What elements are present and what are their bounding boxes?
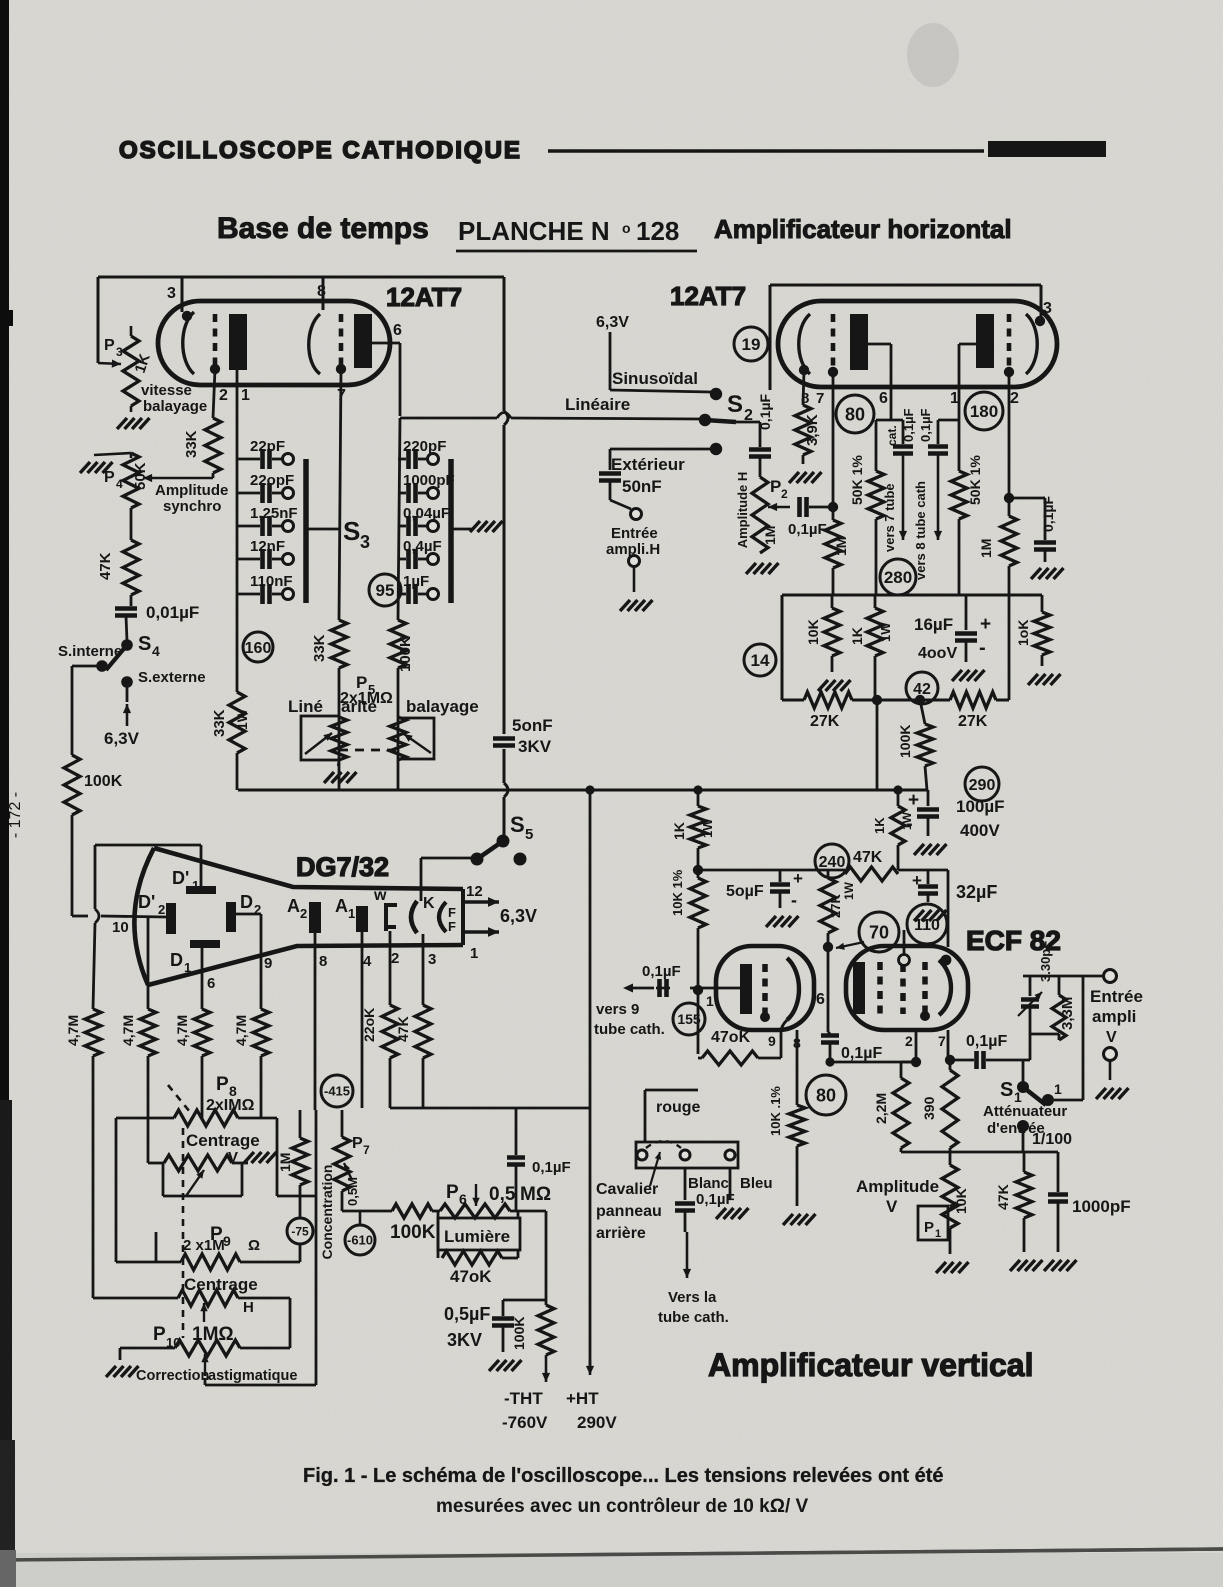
svg-text:Bleu: Bleu bbox=[740, 1175, 773, 1192]
svg-text:Amplificateur horizontal: Amplificateur horizontal bbox=[714, 214, 1012, 244]
svg-text:5oµF: 5oµF bbox=[726, 883, 764, 900]
svg-text:P: P bbox=[216, 1074, 229, 1095]
svg-text:12AT7: 12AT7 bbox=[670, 281, 746, 311]
svg-text:33K: 33K bbox=[211, 709, 228, 737]
svg-text:6: 6 bbox=[207, 975, 215, 992]
svg-text:1W: 1W bbox=[900, 811, 914, 830]
svg-text:1,25nF: 1,25nF bbox=[250, 505, 298, 522]
svg-text:7: 7 bbox=[363, 1143, 370, 1157]
svg-text:2: 2 bbox=[219, 387, 228, 404]
svg-text:10: 10 bbox=[112, 919, 129, 936]
svg-text:95: 95 bbox=[376, 581, 395, 600]
svg-text:155: 155 bbox=[677, 1011, 701, 1027]
svg-text:2: 2 bbox=[158, 902, 165, 917]
svg-text:tube cath.: tube cath. bbox=[594, 1021, 665, 1038]
svg-text:22pF: 22pF bbox=[250, 438, 285, 455]
svg-text:-: - bbox=[791, 890, 797, 910]
svg-text:MΩ: MΩ bbox=[520, 1184, 551, 1205]
svg-text:P: P bbox=[104, 469, 115, 486]
svg-text:50nF: 50nF bbox=[622, 477, 662, 496]
svg-text:vers 9: vers 9 bbox=[596, 1001, 639, 1018]
svg-text:47K: 47K bbox=[395, 1016, 411, 1042]
svg-text:14: 14 bbox=[751, 651, 770, 670]
svg-text:240: 240 bbox=[819, 854, 846, 871]
svg-text:1W: 1W bbox=[700, 818, 715, 838]
svg-text:Entrée: Entrée bbox=[611, 525, 658, 542]
svg-text:1000pF: 1000pF bbox=[1072, 1197, 1131, 1216]
svg-text:P: P bbox=[924, 1219, 934, 1236]
svg-text:4,7M: 4,7M bbox=[174, 1015, 190, 1046]
svg-text:4ooV: 4ooV bbox=[918, 645, 957, 662]
svg-text:Fig. 1 - Le schéma de l'oscill: Fig. 1 - Le schéma de l'oscilloscope... … bbox=[303, 1465, 944, 1487]
svg-text:-: - bbox=[979, 637, 986, 659]
svg-text:S.externe: S.externe bbox=[138, 669, 206, 686]
svg-text:arrière: arrière bbox=[596, 1225, 646, 1242]
svg-text:3,3M: 3,3M bbox=[1059, 997, 1076, 1030]
svg-text:arité: arité bbox=[341, 697, 377, 716]
svg-text:10K .1%: 10K .1% bbox=[768, 1086, 783, 1136]
svg-text:-THT: -THT bbox=[504, 1389, 543, 1408]
svg-text:-415: -415 bbox=[324, 1084, 350, 1099]
svg-text:1K: 1K bbox=[872, 817, 887, 834]
svg-text:vers 8 tube cath: vers 8 tube cath bbox=[913, 481, 928, 580]
svg-text:tube cath.: tube cath. bbox=[658, 1309, 729, 1326]
svg-text:400V: 400V bbox=[960, 821, 1000, 840]
svg-text:290: 290 bbox=[969, 777, 996, 794]
svg-text:50K 1%: 50K 1% bbox=[967, 455, 983, 505]
svg-text:balayage: balayage bbox=[143, 398, 207, 415]
svg-text:Ω: Ω bbox=[248, 1237, 260, 1254]
svg-text:Atténuateur: Atténuateur bbox=[983, 1103, 1067, 1120]
svg-text:6,3V: 6,3V bbox=[596, 314, 629, 331]
svg-text:1M: 1M bbox=[762, 526, 778, 545]
svg-text:D: D bbox=[240, 892, 253, 912]
svg-text:4: 4 bbox=[152, 643, 160, 659]
svg-text:100K: 100K bbox=[897, 725, 913, 758]
svg-text:-760V: -760V bbox=[502, 1413, 548, 1432]
svg-text:Cavalier: Cavalier bbox=[596, 1181, 658, 1198]
svg-text:4: 4 bbox=[116, 477, 123, 491]
svg-text:33K: 33K bbox=[183, 430, 200, 458]
svg-text:3: 3 bbox=[116, 345, 123, 359]
svg-text:50K 1%: 50K 1% bbox=[849, 455, 865, 505]
svg-text:S: S bbox=[138, 633, 151, 655]
svg-text:22oK: 22oK bbox=[361, 1008, 377, 1042]
svg-text:80: 80 bbox=[845, 404, 865, 424]
svg-text:128: 128 bbox=[636, 216, 679, 246]
svg-text:0,1µF: 0,1µF bbox=[1040, 495, 1056, 532]
svg-text:1M: 1M bbox=[277, 1153, 293, 1172]
svg-text:D': D' bbox=[138, 892, 155, 912]
svg-text:panneau: panneau bbox=[596, 1203, 662, 1220]
svg-text:110nF: 110nF bbox=[250, 573, 293, 590]
svg-text:12: 12 bbox=[466, 883, 483, 900]
svg-text:1/100: 1/100 bbox=[1032, 1131, 1072, 1148]
svg-text:F: F bbox=[448, 919, 456, 934]
svg-text:D: D bbox=[170, 950, 183, 970]
svg-text:P: P bbox=[352, 1135, 363, 1152]
svg-text:P: P bbox=[104, 337, 115, 354]
svg-text:47K: 47K bbox=[995, 1184, 1011, 1210]
svg-text:1: 1 bbox=[184, 960, 191, 975]
svg-text:5: 5 bbox=[525, 826, 533, 843]
svg-text:1W: 1W bbox=[842, 881, 856, 900]
svg-text:Amplitude H: Amplitude H bbox=[735, 472, 750, 549]
svg-text:0,1µF: 0,1µF bbox=[788, 521, 827, 538]
svg-text:0,5µF: 0,5µF bbox=[444, 1304, 490, 1324]
svg-text:9: 9 bbox=[768, 1033, 776, 1049]
svg-text:ampli: ampli bbox=[1092, 1007, 1136, 1026]
svg-text:Base de temps: Base de temps bbox=[217, 212, 429, 245]
svg-text:1000pF: 1000pF bbox=[403, 472, 455, 489]
svg-text:-610: -610 bbox=[347, 1233, 373, 1248]
svg-text:Centrage: Centrage bbox=[186, 1131, 260, 1150]
svg-text:9: 9 bbox=[264, 955, 272, 972]
svg-text:160: 160 bbox=[245, 640, 272, 657]
svg-text:0,01µF: 0,01µF bbox=[146, 603, 199, 622]
svg-text:cat.: cat. bbox=[885, 425, 899, 446]
svg-text:2: 2 bbox=[391, 950, 399, 967]
svg-text:2,2M: 2,2M bbox=[873, 1093, 889, 1124]
svg-text:0,1µF: 0,1µF bbox=[901, 408, 916, 442]
svg-text:27K: 27K bbox=[958, 713, 988, 730]
svg-text:3KV: 3KV bbox=[447, 1330, 482, 1350]
svg-text:0,5: 0,5 bbox=[489, 1184, 516, 1205]
svg-text:0,1µF: 0,1µF bbox=[966, 1033, 1007, 1050]
svg-text:6,3V: 6,3V bbox=[104, 729, 140, 748]
svg-text:32µF: 32µF bbox=[956, 882, 997, 902]
svg-text:220pF: 220pF bbox=[403, 438, 446, 455]
svg-text:1: 1 bbox=[1054, 1081, 1062, 1097]
svg-text:2: 2 bbox=[781, 487, 788, 501]
svg-text:+: + bbox=[908, 790, 919, 811]
svg-text:3: 3 bbox=[167, 285, 176, 302]
svg-text:1: 1 bbox=[935, 1228, 941, 1240]
svg-text:1W: 1W bbox=[878, 622, 893, 642]
svg-text:19: 19 bbox=[742, 335, 761, 354]
svg-text:Amplitude: Amplitude bbox=[155, 482, 228, 499]
svg-text:1K: 1K bbox=[849, 627, 865, 645]
svg-text:16µF: 16µF bbox=[914, 615, 953, 634]
svg-text:6: 6 bbox=[459, 1191, 467, 1207]
svg-text:7: 7 bbox=[938, 1033, 946, 1049]
svg-text:0,4µF: 0,4µF bbox=[403, 538, 442, 555]
svg-text:o: o bbox=[622, 220, 631, 236]
svg-text:3: 3 bbox=[1043, 300, 1052, 317]
svg-text:+HT: +HT bbox=[566, 1389, 599, 1408]
svg-text:290V: 290V bbox=[577, 1413, 617, 1432]
svg-text:1: 1 bbox=[241, 387, 250, 404]
svg-text:Extérieur: Extérieur bbox=[611, 455, 685, 474]
svg-text:6: 6 bbox=[393, 322, 402, 339]
svg-text:1W: 1W bbox=[234, 708, 250, 730]
svg-text:A: A bbox=[335, 896, 348, 916]
svg-text:6: 6 bbox=[879, 390, 888, 407]
svg-text:100K: 100K bbox=[84, 773, 123, 790]
svg-text:10K 1%: 10K 1% bbox=[670, 869, 685, 916]
svg-text:S: S bbox=[343, 516, 360, 546]
svg-text:S: S bbox=[727, 391, 743, 418]
svg-text:100K: 100K bbox=[390, 1222, 436, 1243]
svg-text:80: 80 bbox=[816, 1085, 836, 1105]
svg-text:100K: 100K bbox=[511, 1317, 527, 1350]
svg-text:w: w bbox=[373, 887, 387, 904]
svg-text:rouge: rouge bbox=[656, 1099, 701, 1116]
svg-text:OSCILLOSCOPE CATHODIQUE: OSCILLOSCOPE CATHODIQUE bbox=[119, 137, 522, 164]
svg-text:1µF: 1µF bbox=[403, 573, 429, 590]
svg-text:12AT7: 12AT7 bbox=[386, 282, 462, 312]
svg-text:Blanc: Blanc bbox=[688, 1175, 729, 1192]
svg-text:astigmatique: astigmatique bbox=[208, 1368, 297, 1384]
svg-text:47K: 47K bbox=[97, 552, 114, 580]
svg-text:0,1µF: 0,1µF bbox=[841, 1045, 882, 1062]
svg-text:2: 2 bbox=[905, 1033, 913, 1049]
svg-text:Entrée: Entrée bbox=[1090, 987, 1143, 1006]
svg-text:10K: 10K bbox=[953, 1188, 969, 1214]
svg-text:50K: 50K bbox=[132, 462, 149, 490]
svg-text:balayage: balayage bbox=[406, 697, 479, 716]
svg-text:3: 3 bbox=[428, 951, 436, 968]
svg-text:V: V bbox=[1106, 1029, 1117, 1046]
svg-text:6,3V: 6,3V bbox=[500, 906, 537, 926]
svg-text:S: S bbox=[1000, 1079, 1013, 1101]
svg-text:A: A bbox=[287, 896, 300, 916]
svg-text:8: 8 bbox=[317, 283, 326, 300]
svg-text:0,1µF: 0,1µF bbox=[918, 408, 933, 442]
svg-text:100K: 100K bbox=[397, 636, 414, 672]
svg-text:33K: 33K bbox=[311, 634, 328, 662]
svg-text:Vers la: Vers la bbox=[668, 1289, 717, 1306]
svg-text:Sinusoïdal: Sinusoïdal bbox=[612, 369, 698, 388]
svg-text:1: 1 bbox=[706, 993, 714, 1009]
svg-text:0,5M: 0,5M bbox=[345, 1177, 360, 1206]
svg-text:8: 8 bbox=[319, 953, 327, 970]
svg-text:27K: 27K bbox=[828, 894, 843, 918]
svg-text:H: H bbox=[243, 1299, 254, 1316]
svg-text:Lumière: Lumière bbox=[444, 1227, 510, 1246]
svg-text:22opF: 22opF bbox=[250, 472, 294, 489]
svg-text:180: 180 bbox=[970, 402, 998, 421]
svg-text:0,1µF: 0,1µF bbox=[532, 1159, 571, 1176]
svg-text:vers 7 tube: vers 7 tube bbox=[882, 483, 897, 552]
svg-text:27K: 27K bbox=[810, 713, 840, 730]
svg-text:S: S bbox=[510, 812, 525, 837]
svg-text:1: 1 bbox=[470, 945, 478, 962]
svg-text:7: 7 bbox=[816, 390, 824, 407]
svg-text:4,7M: 4,7M bbox=[120, 1015, 136, 1046]
svg-text:2: 2 bbox=[1010, 390, 1019, 407]
svg-text:12nF: 12nF bbox=[250, 538, 285, 555]
svg-text:1K: 1K bbox=[671, 822, 687, 840]
svg-text:8: 8 bbox=[793, 1035, 801, 1051]
svg-text:P: P bbox=[153, 1324, 166, 1345]
svg-text:0,1µF: 0,1µF bbox=[757, 393, 773, 430]
svg-text:0,04µF: 0,04µF bbox=[403, 505, 450, 522]
svg-text:DG7/32: DG7/32 bbox=[296, 852, 389, 882]
svg-text:K: K bbox=[423, 895, 435, 912]
svg-text:V: V bbox=[886, 1197, 898, 1216]
svg-text:Liné: Liné bbox=[288, 697, 323, 716]
svg-text:42: 42 bbox=[913, 681, 931, 698]
svg-text:+: + bbox=[793, 869, 803, 888]
svg-text:P: P bbox=[446, 1182, 459, 1203]
svg-text:0,1µF: 0,1µF bbox=[642, 963, 681, 980]
svg-text:10K: 10K bbox=[805, 619, 821, 645]
svg-text:+: + bbox=[912, 871, 922, 890]
svg-text:3.30pF: 3.30pF bbox=[1038, 941, 1053, 982]
svg-text:-75: -75 bbox=[291, 1224, 309, 1238]
svg-text:synchro: synchro bbox=[163, 498, 221, 515]
svg-text:100µF: 100µF bbox=[956, 797, 1005, 816]
svg-text:+: + bbox=[980, 614, 991, 635]
svg-text:1: 1 bbox=[348, 906, 355, 921]
svg-text:2: 2 bbox=[254, 902, 261, 917]
svg-text:1: 1 bbox=[192, 878, 199, 893]
svg-text:3KV: 3KV bbox=[518, 737, 552, 756]
svg-text:Amplificateur vertical: Amplificateur vertical bbox=[708, 1347, 1033, 1383]
svg-text:D': D' bbox=[172, 868, 189, 888]
svg-text:Centrage: Centrage bbox=[184, 1275, 258, 1294]
svg-text:4,7M: 4,7M bbox=[65, 1015, 81, 1046]
svg-text:47oK: 47oK bbox=[450, 1267, 492, 1286]
svg-text:- 172 -: - 172 - bbox=[7, 792, 24, 838]
svg-text:3,9K: 3,9K bbox=[804, 414, 821, 446]
svg-text:4: 4 bbox=[363, 953, 372, 970]
svg-text:F: F bbox=[448, 905, 456, 920]
svg-text:3: 3 bbox=[360, 532, 370, 552]
svg-text:1M: 1M bbox=[833, 537, 849, 556]
svg-text:5onF: 5onF bbox=[512, 716, 553, 735]
svg-text:4,7M: 4,7M bbox=[233, 1015, 249, 1046]
svg-text:Amplitude: Amplitude bbox=[856, 1177, 939, 1196]
svg-text:P: P bbox=[770, 477, 781, 496]
svg-text:70: 70 bbox=[869, 922, 889, 942]
svg-text:47K: 47K bbox=[853, 849, 883, 866]
svg-text:mesurées avec un contrôleur d: mesurées avec un contrôleur de 10 kΩ/ V bbox=[436, 1496, 808, 1517]
svg-text:Correction: Correction bbox=[136, 1368, 209, 1384]
svg-text:S.interne: S.interne bbox=[58, 643, 122, 660]
svg-text:Linéaire: Linéaire bbox=[565, 395, 630, 414]
svg-text:PLANCHE N: PLANCHE N bbox=[458, 216, 610, 246]
svg-text:280: 280 bbox=[884, 568, 912, 587]
svg-text:390: 390 bbox=[921, 1096, 937, 1120]
svg-text:2: 2 bbox=[300, 906, 307, 921]
svg-text:1M: 1M bbox=[978, 539, 994, 558]
svg-text:47oK: 47oK bbox=[711, 1029, 751, 1046]
svg-text:1oK: 1oK bbox=[1015, 620, 1031, 646]
svg-text:6: 6 bbox=[816, 991, 825, 1008]
